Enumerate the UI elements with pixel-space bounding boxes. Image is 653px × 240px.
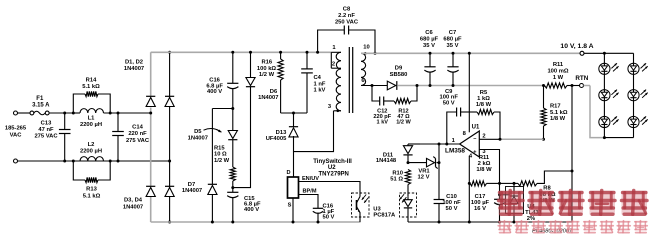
svg-text:2200 µH: 2200 µH — [80, 149, 102, 155]
resistor R11 sense — [542, 84, 545, 87]
transformer T1 primary winding — [336, 52, 341, 111]
zener VR1 — [408, 162, 427, 164]
wire clamp bottom — [281, 112, 307, 114]
svg-text:250 VAC: 250 VAC — [335, 20, 359, 26]
node AC input L terminal — [14, 111, 18, 115]
svg-text:220 nF: 220 nF — [128, 131, 147, 137]
svg-text:12 V: 12 V — [418, 175, 430, 181]
svg-text:1/8 W: 1/8 W — [550, 116, 566, 122]
LED D3a — [599, 116, 610, 127]
svg-text:1/2 W: 1/2 W — [396, 120, 411, 126]
svg-text:1 nF: 1 nF — [314, 81, 326, 87]
svg-text:+: + — [473, 150, 476, 156]
svg-text:U1: U1 — [472, 125, 480, 131]
svg-text:51 Ω: 51 Ω — [390, 177, 403, 183]
diode D1 — [146, 95, 155, 97]
capacitor C7 — [452, 53, 454, 66]
svg-text:VAC: VAC — [10, 133, 23, 139]
svg-text:35 V: 35 V — [447, 43, 459, 49]
svg-text:1N4148: 1N4148 — [376, 158, 397, 164]
svg-text:C4: C4 — [314, 75, 322, 81]
svg-text:2200 µH: 2200 µH — [80, 122, 102, 128]
transformer core — [348, 47, 350, 113]
svg-text:D1, D2: D1, D2 — [125, 60, 143, 66]
svg-text:D: D — [286, 170, 290, 176]
optocoupler U3 LED — [400, 193, 417, 217]
wire ground riser — [571, 86, 573, 223]
svg-text:S: S — [288, 203, 292, 209]
svg-text:50 V: 50 V — [443, 100, 455, 106]
svg-text:1 W: 1 W — [553, 75, 564, 81]
snubber C12 R12 — [372, 86, 380, 102]
transformer T1 secondary winding — [361, 53, 366, 85]
svg-text:2: 2 — [332, 61, 335, 67]
svg-text:C14: C14 — [132, 125, 143, 131]
svg-text:275 VAC: 275 VAC — [34, 134, 58, 140]
diode D4 — [165, 185, 174, 187]
LED D2a — [599, 90, 610, 101]
capacitor C9 feedback — [447, 112, 457, 144]
svg-text:R14: R14 — [86, 78, 97, 84]
svg-text:1 kV: 1 kV — [314, 88, 326, 94]
svg-text:L1: L1 — [88, 116, 96, 122]
svg-text:1N4007: 1N4007 — [123, 204, 143, 210]
wire bottom primary bus — [151, 221, 361, 223]
wire LED column 1 — [603, 53, 605, 137]
svg-text:400 V: 400 V — [207, 89, 222, 95]
resistor R8 — [514, 182, 518, 184]
svg-text:BP/M: BP/M — [303, 189, 317, 195]
node 10V output terminal — [580, 51, 584, 55]
resistor R15 — [230, 167, 235, 181]
svg-text:5.1 kΩ: 5.1 kΩ — [83, 194, 101, 200]
svg-text:C6: C6 — [425, 30, 433, 36]
capacitor C10 — [438, 144, 440, 199]
wire LED column 2 — [633, 53, 635, 137]
TinySwitch U2 box — [288, 177, 299, 198]
svg-text:R13: R13 — [86, 187, 97, 193]
diode D2 — [165, 95, 174, 97]
wire V+ pin 8 — [468, 53, 470, 132]
svg-text:C13: C13 — [41, 121, 52, 127]
wire — [18, 112, 31, 114]
capacitor C16 bulk — [232, 52, 234, 83]
svg-text:100 kΩ: 100 kΩ — [257, 66, 277, 72]
diode D7 — [211, 109, 213, 185]
capacitor C6 — [429, 53, 431, 66]
wire bridge branch 1 — [150, 52, 152, 96]
svg-text:R15: R15 — [214, 145, 225, 151]
svg-text:1N4007: 1N4007 — [182, 188, 202, 194]
svg-text:D9: D9 — [395, 66, 403, 72]
svg-text:RTN: RTN — [575, 75, 588, 82]
svg-text:R16: R16 — [261, 60, 272, 66]
wire TL431 ref — [500, 194, 510, 196]
svg-text:400 V: 400 V — [244, 207, 259, 213]
wire output pin 1 — [408, 143, 460, 145]
fuse F1 — [30, 111, 34, 115]
svg-text:U2: U2 — [328, 165, 336, 171]
wire source pin — [292, 198, 294, 222]
svg-text:10: 10 — [363, 45, 369, 51]
LED D2b — [628, 90, 639, 101]
LED D1a — [599, 63, 610, 74]
svg-text:3: 3 — [328, 104, 332, 110]
svg-text:D3, D4: D3, D4 — [124, 198, 143, 204]
svg-text:SB580: SB580 — [390, 72, 408, 78]
svg-text:1 kV: 1 kV — [377, 120, 389, 126]
wire jog — [212, 108, 232, 110]
svg-text:680 µF: 680 µF — [443, 37, 462, 43]
svg-text:1: 1 — [332, 45, 336, 51]
svg-text:50 V: 50 V — [323, 215, 335, 221]
resistor R14 — [72, 112, 75, 115]
wire to LED strings — [584, 52, 634, 54]
node AC input N terminal — [14, 159, 18, 163]
svg-text:TNY279PN: TNY279PN — [319, 172, 349, 178]
wire — [49, 112, 74, 114]
watermark row 2 — [499, 221, 511, 223]
diode D13 — [293, 113, 295, 127]
svg-text:8: 8 — [463, 131, 467, 137]
wire rectified rail — [397, 85, 543, 87]
resistor R5 — [477, 109, 494, 114]
svg-text:680 µF: 680 µF — [420, 37, 439, 43]
wire drain node — [294, 111, 334, 177]
wire pin 3 — [479, 150, 499, 184]
capacitor C15 — [232, 188, 234, 193]
svg-text:D5: D5 — [194, 129, 202, 135]
svg-text:47 nF: 47 nF — [38, 127, 54, 133]
svg-text:C8: C8 — [343, 7, 351, 13]
resistor R16 — [280, 52, 282, 59]
svg-text:35 V: 35 V — [423, 43, 435, 49]
svg-text:2.2 nF: 2.2 nF — [338, 13, 355, 19]
diode D6 — [250, 52, 252, 77]
svg-text:−: − — [473, 137, 476, 143]
wire EN/UV — [299, 182, 361, 197]
svg-text:5.1 kΩ: 5.1 kΩ — [550, 110, 568, 116]
capacitor C14 — [117, 113, 119, 131]
wire TL431 cathode node — [500, 182, 515, 184]
svg-text:10 Ω: 10 Ω — [214, 152, 227, 158]
inductor L1 — [74, 112, 80, 114]
svg-text:R8: R8 — [543, 186, 551, 192]
wire secondary ground bus — [408, 221, 572, 223]
svg-text:1/8 W: 1/8 W — [476, 167, 492, 173]
wire pin6 — [361, 85, 387, 87]
resistor R13 — [72, 160, 75, 163]
svg-text:D13: D13 — [276, 130, 287, 136]
svg-text:5.1 kΩ: 5.1 kΩ — [82, 84, 100, 90]
svg-text:185-265: 185-265 — [5, 126, 27, 132]
capacitor C13 — [64, 113, 66, 129]
LED D1b — [628, 63, 639, 74]
svg-text:TinySwitch-III: TinySwitch-III — [313, 159, 352, 165]
svg-text:F1: F1 — [36, 96, 44, 102]
svg-text:EN/UV: EN/UV — [302, 176, 319, 182]
optocoupler U3 phototransistor — [352, 193, 370, 217]
svg-text:1: 1 — [452, 138, 456, 144]
diode D3 — [146, 185, 155, 187]
svg-text:UF4005: UF4005 — [266, 136, 287, 142]
wire LED return — [590, 86, 605, 138]
capacitor C16 bypass — [313, 207, 323, 209]
svg-text:10 V, 1.8 A: 10 V, 1.8 A — [560, 43, 593, 50]
watermark row 1 — [499, 191, 524, 215]
node RTN terminal — [580, 84, 584, 88]
op-amp U1 LM358 — [460, 131, 480, 157]
diode D9 — [387, 81, 396, 90]
capacitor C17 — [499, 183, 501, 199]
svg-text:2: 2 — [482, 134, 485, 140]
wire bridge branch 2 — [169, 52, 171, 222]
resistor R11 2k — [470, 181, 487, 186]
svg-text:1N4007: 1N4007 — [258, 95, 278, 101]
svg-text:100 mΩ: 100 mΩ — [547, 69, 568, 75]
wire BP/M — [299, 195, 319, 209]
svg-text:R17: R17 — [550, 104, 561, 110]
capacitor C4 — [306, 52, 308, 68]
wire inverting sense line — [479, 138, 500, 140]
svg-text:275 VAC: 275 VAC — [126, 138, 150, 144]
wire — [18, 160, 171, 162]
svg-text:1/8 W: 1/8 W — [476, 102, 492, 108]
capacitor C8 — [318, 30, 345, 52]
wire top DC bus — [151, 51, 332, 53]
svg-text:3.15 A: 3.15 A — [32, 103, 50, 109]
svg-text:L2: L2 — [88, 142, 95, 148]
resistor R10 — [405, 170, 410, 185]
LED D3b — [628, 116, 639, 127]
svg-text:C7: C7 — [449, 30, 456, 36]
svg-text:R10: R10 — [392, 170, 403, 176]
svg-text:1N4007: 1N4007 — [188, 136, 208, 142]
svg-text:1N4007: 1N4007 — [124, 66, 144, 72]
svg-text:50 V: 50 V — [446, 206, 458, 212]
shunt regulator U4 TL431 — [506, 187, 524, 214]
inductor L2 — [80, 156, 104, 161]
svg-text:PC817A: PC817A — [373, 212, 396, 218]
svg-text:1/2 W: 1/2 W — [259, 72, 275, 78]
resistor R17 — [543, 86, 545, 109]
wire V- pin 4 — [468, 156, 470, 222]
svg-text:16 V: 16 V — [474, 206, 486, 212]
svg-text:LM358: LM358 — [445, 147, 465, 154]
svg-text:R11: R11 — [553, 62, 564, 68]
wire pin10 rail — [361, 52, 580, 54]
svg-text:1/2 W: 1/2 W — [214, 158, 230, 164]
diode D5 — [232, 109, 234, 131]
diode D11 — [407, 144, 409, 146]
